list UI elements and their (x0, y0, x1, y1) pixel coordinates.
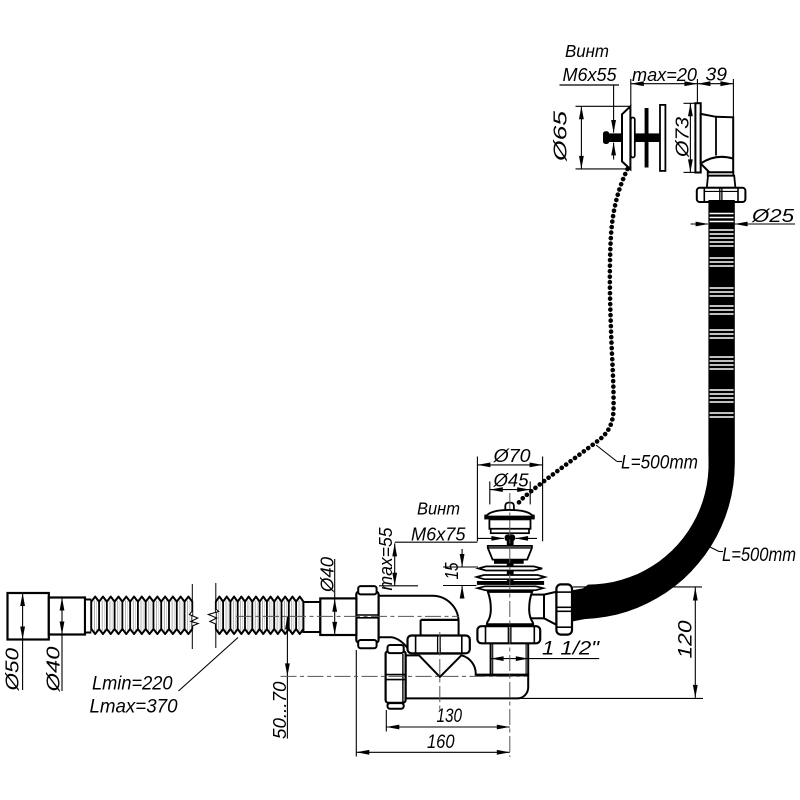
flex pipe sleeve Ø40 (49, 598, 85, 635)
overflow collar (708, 172, 734, 175)
drain tailpiece cup (488, 546, 532, 560)
svg-text:39: 39 (706, 65, 728, 85)
rosette gasket (631, 118, 635, 158)
bath plug knob (505, 503, 514, 512)
svg-text:Ø50: Ø50 (2, 647, 23, 692)
cross bracket bar (645, 108, 649, 168)
leader Lmin/Lmax (179, 638, 239, 692)
cleanout union nut (bottom left) (386, 651, 406, 703)
flex pipe neck (85, 600, 91, 633)
drain gasket (black) (477, 581, 544, 585)
svg-text:Lmin=220: Lmin=220 (92, 674, 173, 695)
centerline inlet pipe axis (236, 615, 459, 617)
bath plug dome (486, 510, 533, 517)
flex pipe end cuff Ø50 (8, 593, 49, 640)
plug screw cap (505, 534, 516, 541)
drain body gasket (black) (487, 624, 533, 626)
pipe break symbol (191, 584, 193, 611)
overflow corrugated hose (black) (572, 200, 735, 622)
svg-text:Ø65: Ø65 (550, 110, 571, 162)
siphon bottom pipe and outlet elbow (406, 655, 529, 698)
svg-text:М6х75: М6х75 (411, 525, 466, 545)
overflow hex nut (697, 188, 746, 202)
overflow body flange (695, 103, 700, 172)
svg-text:L=500mm: L=500mm (722, 545, 796, 566)
svg-text:max=55: max=55 (376, 527, 396, 591)
drain threaded pipe 1 1/2 inch (490, 643, 492, 675)
bath plug body (489, 519, 530, 528)
centerline funnel axis (439, 632, 441, 712)
bath plug brim (thick edge) (485, 516, 534, 519)
hose thread stripes (710, 213, 734, 215)
drain flange plate 1 (478, 566, 542, 570)
outlet adapter cone (544, 592, 556, 625)
leader L=500mm chain (596, 445, 617, 462)
overflow body cone and elbow (701, 114, 734, 172)
extension line for 120 top (under hose) (573, 586, 702, 588)
svg-text:Lmax=370: Lmax=370 (90, 697, 178, 718)
svg-text:L=500mm: L=500mm (621, 453, 698, 474)
leader arrows M6x75 screw (477, 537, 504, 539)
chain (beaded line) (517, 169, 628, 505)
siphon funnel cone (triangle) (419, 655, 462, 677)
svg-text:Ø70: Ø70 (492, 445, 531, 466)
svg-text:130: 130 (437, 706, 463, 727)
screw M6x55 shaft (606, 133, 660, 142)
side outlet pipe to overflow hose (529, 595, 544, 619)
bath plug skirt (491, 529, 529, 533)
svg-text:Винт: Винт (417, 499, 460, 519)
svg-text:Ø25: Ø25 (751, 205, 795, 226)
washer plate (660, 105, 665, 171)
flex pipe fitting (320, 598, 356, 635)
overflow rosette (cover plate) (622, 106, 630, 169)
centerline bottom pipe axis (281, 675, 528, 677)
leader arrows M6x55 screw (613, 85, 615, 133)
flex pipe smooth end (303, 602, 320, 632)
drain flange plate 3 (478, 586, 544, 590)
flex pipe corrugations (91, 597, 192, 635)
overflow tail cone (707, 176, 736, 188)
inlet elbow down to funnel (379, 596, 459, 638)
svg-text:Ø45: Ø45 (492, 470, 529, 491)
funnel union nut (408, 636, 470, 654)
svg-text:1 1/2": 1 1/2" (542, 639, 600, 660)
screw M6x55 head (603, 131, 609, 144)
drain flange plate 2 (477, 575, 545, 579)
leader L=500mm hose (703, 544, 719, 552)
cup rubber washer (black) (494, 560, 524, 564)
centerline drain axis (509, 493, 511, 757)
svg-text:160: 160 (427, 732, 455, 753)
svg-text:15: 15 (442, 562, 462, 580)
svg-text:120: 120 (676, 620, 697, 659)
drain coupling nut (477, 626, 540, 643)
drain body (487, 592, 533, 624)
svg-text:Ø73: Ø73 (672, 116, 693, 158)
side union nut (overflow hose) (556, 584, 572, 634)
plug screw stem (507, 540, 514, 585)
inlet union nut (left) (356, 592, 378, 643)
svg-text:Ø40: Ø40 (43, 646, 64, 693)
svg-text:М6х55: М6х55 (563, 65, 618, 85)
svg-text:Винт: Винт (565, 41, 609, 61)
